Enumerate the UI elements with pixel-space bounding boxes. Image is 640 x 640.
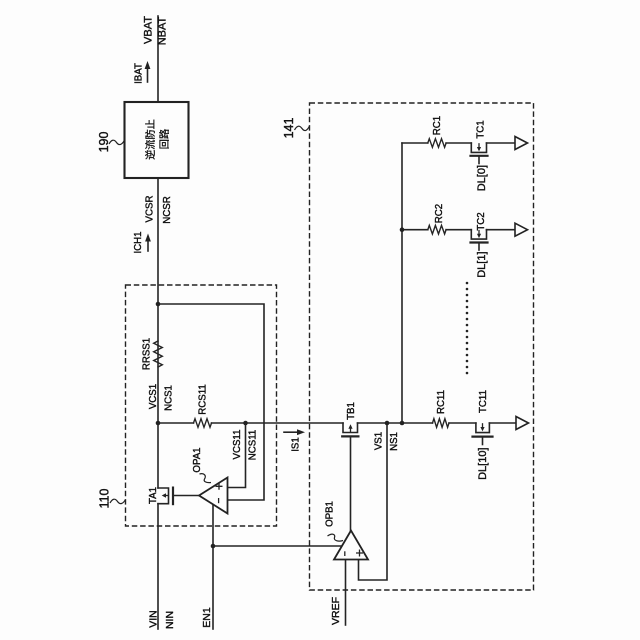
svg-text:TB1: TB1 <box>346 402 357 420</box>
transistor TC1 notch <box>471 143 486 152</box>
wire TC11 to output arrow DL[10] <box>489 422 516 424</box>
svg-text:TC2: TC2 <box>476 212 487 230</box>
wire TC1 to output arrow DL[0] <box>487 142 516 144</box>
svg-text:NBAT: NBAT <box>157 16 169 45</box>
svg-text:141: 141 <box>282 118 296 139</box>
transistor TA1 gate bar <box>172 488 174 505</box>
svg-text:RC2: RC2 <box>434 204 445 223</box>
transistor TA1 source arrow line <box>166 495 168 497</box>
svg-text:NS1: NS1 <box>389 432 400 451</box>
current arrow ICH1 <box>147 241 149 251</box>
transistor TC1 source arrow line <box>478 144 480 148</box>
resistor RC2 <box>428 225 446 234</box>
node B junction dot VCS1 <box>156 421 161 426</box>
svg-text:DL[10]: DL[10] <box>477 448 489 480</box>
transistor TC2 source arrow line <box>478 231 480 235</box>
arrowhead IS1 <box>297 429 305 435</box>
svg-text:RC1: RC1 <box>432 116 443 135</box>
op-amp OPA1 plus sign <box>216 483 223 490</box>
signal stub DL[0] gate <box>478 156 480 164</box>
svg-text:IBAT: IBAT <box>134 63 145 84</box>
wire node A feedback to OPA1 minus input <box>158 304 264 500</box>
arrowhead ICH1 <box>145 234 151 242</box>
wire TC2 to output arrow DL[1] <box>487 229 516 231</box>
resistor RRSS1 <box>154 341 163 367</box>
leader squiggle OPB1 <box>328 534 344 541</box>
svg-text:OPA1: OPA1 <box>192 447 203 472</box>
svg-text:NIN: NIN <box>164 611 176 629</box>
svg-text:NCS1: NCS1 <box>164 385 175 411</box>
wire TB1 gate lead to OPB1 output <box>350 436 352 530</box>
current arrow IS1 <box>284 431 298 433</box>
arrowhead TC2 source <box>477 234 481 238</box>
transistor TB1 source arrow line <box>350 429 352 432</box>
svg-text:TC11: TC11 <box>478 390 489 413</box>
boundary 110 dashed box <box>126 285 277 526</box>
wire NCSR rail (box 190 to TA1) <box>157 178 159 488</box>
wire RC1 to TC1 <box>446 142 471 144</box>
svg-text:DL[1]: DL[1] <box>476 252 488 278</box>
junction dot VS1/NS1 <box>385 421 390 426</box>
signal stub DL[1] gate <box>478 243 480 251</box>
output arrow DL[1] <box>515 223 528 236</box>
wire EN1 vertical <box>212 504 214 629</box>
transistor TC11 notch <box>476 423 490 433</box>
leader squiggle 141 <box>295 126 310 131</box>
op-amp OPB1 plus sign <box>356 550 363 557</box>
op-amp OPA1 <box>199 478 228 514</box>
svg-text:TC1: TC1 <box>476 120 487 138</box>
leader squiggle 110 <box>110 499 126 503</box>
arrowhead TB1 source <box>348 424 352 428</box>
transistor TA1 notch <box>158 488 169 504</box>
wire sense line node B to TB1 <box>158 422 343 424</box>
arrowhead TA1 source <box>162 493 166 497</box>
svg-text:VS1: VS1 <box>374 432 385 450</box>
wire TA1 gate lead to OPA1 output <box>173 495 199 497</box>
wire RC11 to TC11 <box>449 422 476 424</box>
svg-text:RC11: RC11 <box>436 390 447 414</box>
wire VS1 feedback to OPB1 plus input <box>359 423 388 580</box>
junction dot VCS11 <box>243 421 248 426</box>
transistor TC11 gate bar <box>473 436 493 438</box>
arrowhead IBAT <box>145 61 151 69</box>
wire VREF to OPB1 minus input <box>345 560 347 626</box>
transistor TC2 notch <box>471 230 486 239</box>
wire VCS11 node to OPA1 plus input <box>228 423 246 488</box>
svg-text:回路: 回路 <box>158 129 171 149</box>
svg-text:EN1: EN1 <box>201 607 213 628</box>
junction dot branch 2 <box>400 227 405 232</box>
svg-text:VCSR: VCSR <box>145 196 156 223</box>
svg-text:VREF: VREF <box>330 597 342 625</box>
junction dot output bus <box>400 421 405 426</box>
svg-text:RRSS1: RRSS1 <box>142 338 153 370</box>
svg-text:VCS1: VCS1 <box>148 384 159 409</box>
boundary 141 dashed box <box>310 103 534 590</box>
svg-text:ICH1: ICH1 <box>133 231 144 253</box>
node A junction dot <box>156 302 161 307</box>
arrowhead TC1 source <box>477 147 481 151</box>
leader squiggle 190 <box>109 140 125 145</box>
junction dot EN1 <box>211 544 216 549</box>
transistor TB1 notch <box>343 423 358 433</box>
svg-text:VIN: VIN <box>148 610 160 628</box>
wire output bus vertical <box>401 143 403 423</box>
svg-text:110: 110 <box>98 488 112 508</box>
ellipsis dots between branch 2 and branch 11 <box>466 282 469 375</box>
wire branch 2 left segment <box>402 229 428 231</box>
transistor TC11 source arrow line <box>482 424 484 428</box>
svg-text:VCS11: VCS11 <box>232 430 243 460</box>
op-amp OPB1 minus sign <box>344 551 346 556</box>
current arrow IBAT <box>147 68 149 82</box>
block 190 backflow prevention circuit box <box>125 102 189 178</box>
transistor TB1 gate bar <box>342 435 358 437</box>
leader squiggle OPA1 <box>200 474 212 483</box>
transistor TC1 gate bar <box>471 155 488 157</box>
svg-text:NCS11: NCS11 <box>248 430 259 461</box>
arrowhead TC11 source <box>480 427 484 431</box>
resistor RCS11 <box>194 419 212 428</box>
wire TB1 to bus junction <box>358 422 433 424</box>
svg-text:190: 190 <box>97 132 111 153</box>
transistor TC2 gate bar <box>471 241 488 243</box>
resistor RC11 <box>433 419 450 428</box>
resistor RC1 <box>428 139 446 148</box>
svg-text:TA1: TA1 <box>148 487 159 504</box>
output arrow DL[0] <box>515 137 528 150</box>
svg-text:OPB1: OPB1 <box>325 501 336 527</box>
op-amp OPA1 minus sign <box>218 498 220 503</box>
wire VBAT rail (top) <box>157 16 159 102</box>
wire NIN rail (TA1 to bottom) <box>157 504 159 629</box>
svg-text:IS1: IS1 <box>291 437 302 452</box>
svg-text:逆流防止: 逆流防止 <box>144 119 157 160</box>
signal stub DL[10] gate <box>482 437 484 445</box>
svg-text:DL[0]: DL[0] <box>476 165 488 191</box>
output arrow DL[10] <box>516 417 529 430</box>
wire RC2 to TC2 <box>446 229 471 231</box>
wire branch 1 left segment <box>402 142 428 144</box>
wire EN1 branch to OPB1 enable <box>213 545 343 547</box>
op-amp OPB1 <box>334 531 368 560</box>
svg-text:RCS11: RCS11 <box>198 384 209 415</box>
svg-text:VBAT: VBAT <box>143 16 155 44</box>
svg-text:NCSR: NCSR <box>162 196 173 223</box>
